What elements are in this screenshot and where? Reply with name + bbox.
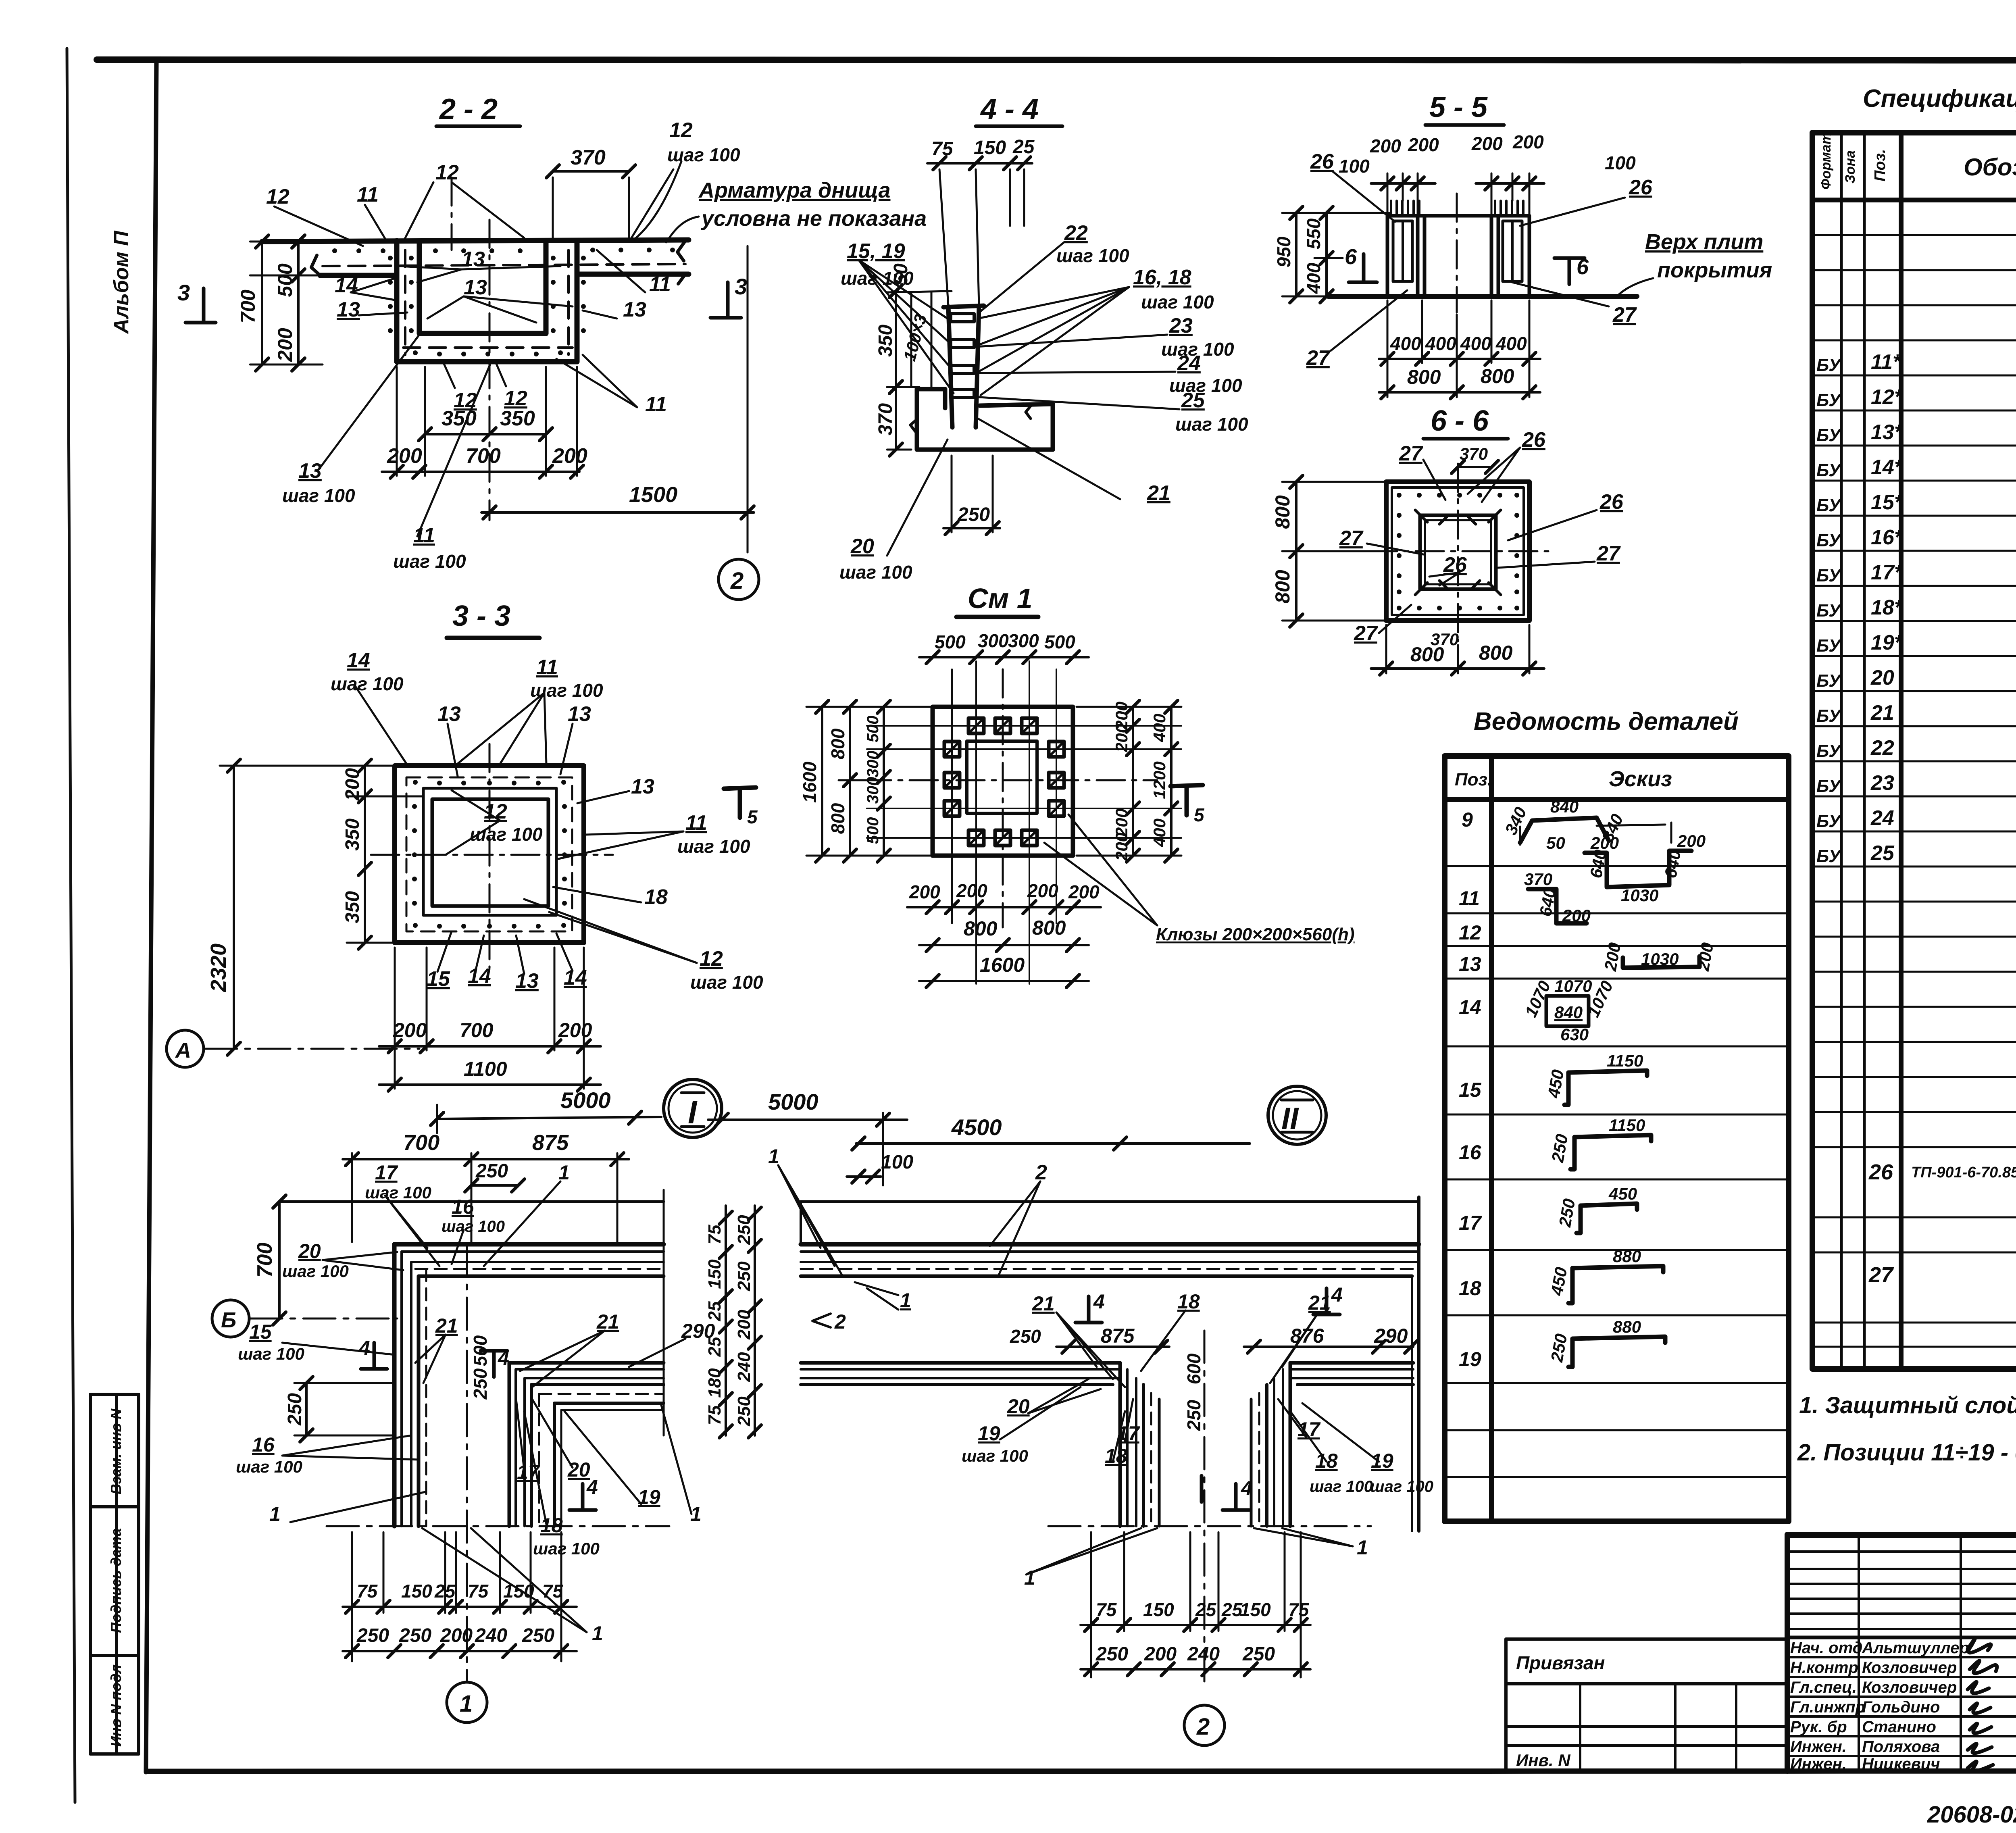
axis circle II bbox=[1268, 1086, 1326, 1144]
section 4-4 left dims bbox=[887, 291, 952, 450]
svg-text:16, 18: 16, 18 bbox=[1133, 266, 1191, 289]
svg-text:240: 240 bbox=[734, 1352, 754, 1382]
plan I left wall band bbox=[394, 1244, 426, 1526]
svg-text:240: 240 bbox=[1187, 1643, 1220, 1665]
section 2-2 rebar dots bbox=[388, 256, 586, 356]
parts list sketch dimension labels bbox=[1501, 797, 1717, 1364]
notes under table bbox=[1797, 1392, 2016, 1466]
svg-text:Альтшуллер: Альтшуллер bbox=[1862, 1639, 1969, 1657]
svg-text:200: 200 bbox=[909, 881, 940, 902]
section 2-2 left dimensions bbox=[250, 242, 323, 365]
svg-text:700: 700 bbox=[253, 1243, 277, 1278]
svg-text:800: 800 bbox=[827, 728, 848, 759]
svg-text:Формат: Формат bbox=[1818, 132, 1834, 190]
plan II dim 100 bbox=[847, 1175, 881, 1178]
svg-text:5: 5 bbox=[747, 806, 758, 827]
svg-text:шаг 100: шаг 100 bbox=[667, 144, 740, 165]
section 3-3 rebar dashed ring bbox=[406, 777, 572, 931]
svg-text:250: 250 bbox=[1547, 1332, 1571, 1364]
svg-text:600: 600 bbox=[1183, 1353, 1204, 1384]
sketch pos 17 L bbox=[1577, 1206, 1581, 1233]
svg-text:800: 800 bbox=[1407, 366, 1441, 388]
section 3-3 left dims bbox=[347, 766, 423, 943]
plan Sm1 bottom dims bbox=[907, 907, 1101, 981]
svg-text:25: 25 bbox=[1870, 842, 1895, 865]
svg-text:150: 150 bbox=[401, 1581, 432, 1602]
svg-text:21: 21 bbox=[1032, 1292, 1055, 1315]
svg-text:250: 250 bbox=[356, 1625, 389, 1646]
svg-text:11: 11 bbox=[1459, 887, 1480, 910]
svg-text:Альбом П: Альбом П bbox=[110, 230, 133, 335]
section 2-2 bottom dims 200 700 200 bbox=[382, 367, 579, 476]
svg-text:БУ: БУ bbox=[1816, 741, 1842, 761]
svg-text:100: 100 bbox=[1339, 156, 1370, 177]
svg-text:1100: 1100 bbox=[464, 1058, 507, 1080]
T5 mark right of Sm1 bbox=[1170, 785, 1203, 815]
svg-text:25: 25 bbox=[1012, 136, 1035, 158]
svg-text:Козловичер: Козловичер bbox=[1862, 1659, 1957, 1677]
svg-text:400: 400 bbox=[1460, 333, 1491, 354]
section 2-2 labels with leaders bbox=[274, 161, 699, 536]
svg-text:13: 13 bbox=[437, 702, 461, 726]
svg-text:400: 400 bbox=[1303, 262, 1324, 294]
svg-text:20608-02: 20608-02 bbox=[1927, 1802, 2016, 1828]
plan I dim 250 bbox=[471, 1184, 518, 1187]
svg-text:13: 13 bbox=[568, 702, 591, 726]
svg-text:4500: 4500 bbox=[951, 1114, 1002, 1140]
svg-text:26: 26 bbox=[1443, 553, 1467, 577]
svg-text:I: I bbox=[688, 1094, 698, 1130]
svg-text:150: 150 bbox=[705, 1259, 725, 1289]
svg-text:шаг 100: шаг 100 bbox=[365, 1183, 431, 1202]
svg-text:200: 200 bbox=[956, 880, 987, 901]
section 5-5 top dims bbox=[1371, 173, 1544, 216]
svg-text:шаг 100: шаг 100 bbox=[533, 1539, 600, 1558]
section 5-5 mark 6 left bbox=[1349, 254, 1377, 282]
svg-text:Инв. N: Инв. N bbox=[1516, 1751, 1571, 1770]
svg-text:370: 370 bbox=[875, 403, 896, 435]
svg-text:Поз.: Поз. bbox=[1872, 149, 1889, 182]
svg-text:БУ: БУ bbox=[1816, 425, 1842, 445]
svg-text:700: 700 bbox=[403, 1131, 439, 1155]
svg-text:Н.контр: Н.контр bbox=[1790, 1659, 1858, 1677]
svg-text:200: 200 bbox=[1370, 135, 1401, 156]
svg-text:21: 21 bbox=[1147, 481, 1170, 505]
sketch pos 18 L bbox=[1568, 1268, 1572, 1303]
plan I inner corner band bbox=[509, 1363, 664, 1526]
svg-text:200: 200 bbox=[440, 1625, 473, 1646]
svg-text:1200: 1200 bbox=[1150, 761, 1169, 799]
svg-text:1: 1 bbox=[460, 1691, 473, 1717]
svg-text:25: 25 bbox=[1195, 1599, 1217, 1620]
svg-text:1. Защитный слой в стакане: 1. Защитный слой в стакане - 25мм. bbox=[1799, 1392, 2016, 1418]
svg-text:200: 200 bbox=[1144, 1643, 1177, 1665]
svg-text:Зона: Зона bbox=[1843, 150, 1858, 183]
svg-text:250: 250 bbox=[475, 1160, 508, 1182]
svg-text:4: 4 bbox=[1241, 1477, 1252, 1500]
left stamp strip bbox=[90, 1394, 139, 1754]
svg-text:25: 25 bbox=[1181, 389, 1205, 412]
svg-text:25: 25 bbox=[434, 1581, 456, 1602]
plan II bottom dims row2 bbox=[1081, 1668, 1310, 1671]
title block left signature sub-table bbox=[1787, 1535, 2016, 1771]
plan II dim 4500 bbox=[856, 1142, 1250, 1145]
section 2-2 bottom dims 350 350 bbox=[425, 367, 546, 476]
section 6-6 centerlines bbox=[1369, 464, 1548, 641]
svg-text:27: 27 bbox=[1354, 622, 1378, 645]
section 2-2 rebar dashed lines bbox=[323, 250, 685, 355]
svg-text:200: 200 bbox=[342, 768, 363, 801]
section mark 3 right bbox=[710, 282, 741, 318]
svg-text:300: 300 bbox=[978, 630, 1009, 651]
svg-text:Поз.: Поз. bbox=[1455, 770, 1492, 789]
svg-text:13: 13 bbox=[1459, 953, 1481, 975]
svg-text:БУ: БУ bbox=[1816, 601, 1842, 621]
svg-text:12*: 12* bbox=[1871, 385, 1904, 409]
axis circle B bbox=[212, 1300, 397, 1337]
plan Sm1 top dims bbox=[919, 656, 1089, 658]
svg-text:шаг 100: шаг 100 bbox=[1175, 414, 1248, 435]
svg-text:75: 75 bbox=[1096, 1599, 1117, 1620]
plan I band right end extension line bbox=[663, 1190, 665, 1435]
svg-text:1030: 1030 bbox=[1641, 950, 1679, 969]
svg-text:250: 250 bbox=[1548, 1133, 1572, 1164]
svg-text:1: 1 bbox=[269, 1503, 281, 1525]
svg-text:2: 2 bbox=[834, 1310, 846, 1333]
svg-text:300: 300 bbox=[864, 777, 882, 804]
plan II label 1 top bbox=[778, 1165, 843, 1276]
svg-text:250: 250 bbox=[957, 504, 990, 525]
svg-text:Обозначение: Обозначение bbox=[1964, 154, 2016, 181]
section 2-2 centerline bbox=[452, 177, 489, 520]
sketch pos 15 L bbox=[1564, 1073, 1568, 1105]
svg-text:15: 15 bbox=[249, 1321, 272, 1343]
sheet outer edge line bbox=[67, 48, 75, 1802]
svg-text:200: 200 bbox=[558, 1019, 592, 1041]
plan II wedge 2 mark bbox=[812, 1314, 831, 1327]
section 2-2 dim 1500 bbox=[481, 246, 754, 552]
section 3-3 centerlines bbox=[371, 744, 613, 968]
svg-text:4: 4 bbox=[358, 1337, 370, 1359]
svg-text:БУ: БУ bbox=[1816, 496, 1842, 515]
svg-text:26: 26 bbox=[1599, 490, 1624, 514]
plan II pit corner wall B bbox=[1251, 1363, 1290, 1526]
sketch pos 13 bracket bbox=[1623, 956, 1699, 968]
svg-text:25: 25 bbox=[705, 1301, 725, 1321]
svg-text:2: 2 bbox=[1196, 1714, 1210, 1740]
svg-text:876: 876 bbox=[1290, 1325, 1325, 1347]
svg-text:400: 400 bbox=[1390, 333, 1421, 354]
svg-text:13: 13 bbox=[462, 248, 485, 271]
section 4-4 right leaders bbox=[859, 242, 1179, 556]
svg-text:250: 250 bbox=[734, 1261, 754, 1291]
svg-text:26: 26 bbox=[1310, 150, 1334, 173]
svg-text:1070: 1070 bbox=[1554, 977, 1592, 996]
svg-text:3: 3 bbox=[735, 274, 747, 299]
svg-text:250: 250 bbox=[399, 1625, 431, 1646]
svg-text:Привязан: Привязан bbox=[1516, 1652, 1605, 1673]
svg-text:5: 5 bbox=[1194, 804, 1205, 825]
section 6-6 top dim 370 bbox=[1458, 466, 1492, 468]
svg-text:26: 26 bbox=[1522, 428, 1546, 452]
svg-text:19*: 19* bbox=[1871, 631, 1904, 654]
section 3-3 top labels bbox=[355, 685, 697, 974]
svg-text:250: 250 bbox=[734, 1215, 754, 1245]
svg-text:1: 1 bbox=[690, 1503, 702, 1525]
svg-text:150: 150 bbox=[503, 1581, 534, 1602]
sketch pos 9 hat shape bbox=[1520, 818, 1609, 843]
svg-text:12: 12 bbox=[1459, 921, 1481, 944]
axis circle I bbox=[664, 1079, 722, 1137]
section 6-6 left dims bbox=[1282, 482, 1387, 621]
sketch pos 14 rect bbox=[1546, 996, 1589, 1026]
svg-text:Спецификация: Спецификация bbox=[1863, 85, 2016, 112]
svg-text:Гл.спец.: Гл.спец. bbox=[1790, 1679, 1857, 1696]
svg-text:Инв N подл: Инв N подл bbox=[108, 1664, 124, 1747]
svg-text:20: 20 bbox=[298, 1240, 321, 1262]
svg-text:14: 14 bbox=[347, 649, 370, 672]
svg-text:11: 11 bbox=[685, 811, 707, 835]
svg-text:800: 800 bbox=[1479, 642, 1513, 664]
axis circle A bbox=[167, 1030, 419, 1067]
svg-text:Козловичер: Козловичер bbox=[1862, 1679, 1957, 1696]
svg-text:350: 350 bbox=[875, 325, 896, 357]
svg-text:12: 12 bbox=[266, 185, 289, 208]
svg-text:21: 21 bbox=[435, 1314, 458, 1337]
svg-text:200: 200 bbox=[1512, 131, 1544, 152]
title block outer bbox=[1787, 1535, 2016, 1771]
svg-text:6 - 6: 6 - 6 bbox=[1431, 405, 1489, 437]
svg-text:75: 75 bbox=[931, 138, 954, 160]
svg-text:800: 800 bbox=[1271, 495, 1294, 529]
svg-text:20: 20 bbox=[850, 535, 874, 558]
plan I left dim 250 bbox=[294, 1383, 393, 1435]
axis circle 2 of section 2-2 bbox=[719, 559, 759, 600]
svg-text:16: 16 bbox=[1459, 1141, 1482, 1164]
svg-text:200: 200 bbox=[274, 328, 296, 362]
section 3-3 dim 5000 to axis I bbox=[437, 1105, 661, 1133]
svg-text:640: 640 bbox=[1661, 848, 1684, 879]
svg-text:БУ: БУ bbox=[1816, 390, 1842, 410]
svg-text:4: 4 bbox=[1093, 1290, 1105, 1313]
plan II top wall band bbox=[801, 1197, 1419, 1531]
svg-text:шаг 100: шаг 100 bbox=[282, 485, 355, 506]
plan II label 1 under band bbox=[855, 1282, 898, 1310]
svg-text:А: А bbox=[175, 1038, 191, 1062]
section 4-4 base block bbox=[910, 389, 1053, 450]
svg-text:19: 19 bbox=[978, 1422, 1000, 1445]
svg-text:шаг 100: шаг 100 bbox=[677, 836, 750, 857]
svg-text:17: 17 bbox=[1459, 1212, 1482, 1234]
sketch pos 9 U shape bbox=[1585, 851, 1691, 887]
section 3-3 rebar dots bbox=[412, 780, 567, 929]
svg-text:200: 200 bbox=[393, 1019, 427, 1041]
svg-text:12: 12 bbox=[484, 800, 507, 823]
section 3-3 bottom dims bbox=[379, 948, 601, 1089]
svg-text:500: 500 bbox=[1044, 631, 1075, 652]
svg-text:200: 200 bbox=[1027, 880, 1058, 901]
sketch pos 19 L bbox=[1568, 1339, 1572, 1367]
svg-text:500: 500 bbox=[935, 631, 966, 652]
svg-text:условна не показана: условна не показана bbox=[700, 206, 927, 231]
svg-text:15: 15 bbox=[427, 967, 450, 991]
svg-text:12: 12 bbox=[435, 161, 459, 184]
plan I top dims 700 875 bbox=[343, 1153, 629, 1242]
svg-text:700: 700 bbox=[466, 444, 501, 468]
section 6-6 title bbox=[1423, 405, 1508, 439]
svg-text:шаг 100: шаг 100 bbox=[393, 551, 466, 572]
svg-text:18*: 18* bbox=[1871, 596, 1904, 619]
svg-text:Подпись дата: Подпись дата bbox=[108, 1528, 124, 1633]
svg-text:18: 18 bbox=[1105, 1445, 1127, 1467]
row rules bbox=[1812, 234, 2016, 236]
svg-text:200: 200 bbox=[734, 1310, 754, 1340]
svg-text:18: 18 bbox=[1177, 1290, 1200, 1313]
section 5-5 centerline bbox=[1456, 194, 1458, 312]
plan I top wall band bbox=[394, 1244, 664, 1276]
svg-text:800: 800 bbox=[964, 917, 998, 940]
plan I bottom V leader 1 bbox=[422, 1528, 587, 1632]
parts list (vedomost) title bbox=[1474, 708, 1739, 735]
svg-text:350: 350 bbox=[342, 891, 363, 923]
section 3-3 squares bbox=[395, 766, 584, 943]
svg-text:2. Позиции 11÷19 - см. ведомо: 2. Позиции 11÷19 - см. ведомость деталей… bbox=[1797, 1439, 2016, 1466]
svg-text:75: 75 bbox=[468, 1581, 489, 1602]
svg-text:БУ: БУ bbox=[1816, 355, 1842, 375]
section 5-5 bottom dims bbox=[1379, 300, 1540, 397]
section 5-5 left dims bbox=[1282, 213, 1391, 296]
plan Sm1 centerlines bbox=[863, 669, 1157, 927]
svg-text:500: 500 bbox=[864, 817, 882, 844]
svg-text:25: 25 bbox=[705, 1337, 725, 1357]
svg-text:370: 370 bbox=[1524, 870, 1552, 889]
svg-text:шаг 100: шаг 100 bbox=[841, 268, 914, 289]
svg-text:700: 700 bbox=[460, 1019, 494, 1041]
plan II mid labels 21 18 bbox=[1056, 1310, 1318, 1387]
svg-text:Б: Б bbox=[221, 1308, 236, 1332]
plan II bottom dims row1 bbox=[1081, 1532, 1310, 1677]
svg-text:200: 200 bbox=[1408, 134, 1439, 155]
svg-text:11: 11 bbox=[649, 273, 671, 296]
svg-text:12: 12 bbox=[504, 387, 527, 410]
svg-text:250: 250 bbox=[284, 1393, 306, 1426]
plan Sm1 left dims bbox=[806, 707, 935, 856]
svg-text:шаг 100: шаг 100 bbox=[1310, 1478, 1373, 1496]
svg-text:5000: 5000 bbox=[560, 1087, 611, 1113]
svg-text:1: 1 bbox=[768, 1145, 779, 1168]
svg-text:11*: 11* bbox=[1871, 350, 1902, 374]
svg-text:15*: 15* bbox=[1871, 491, 1904, 514]
svg-text:18: 18 bbox=[1459, 1277, 1481, 1300]
album label (rotated) bbox=[110, 230, 133, 335]
svg-text:100: 100 bbox=[881, 1152, 913, 1173]
svg-text:400: 400 bbox=[1425, 333, 1456, 354]
svg-text:5 - 5: 5 - 5 bbox=[1429, 91, 1488, 123]
svg-text:Инжен.: Инжен. bbox=[1790, 1755, 1847, 1773]
plan II labels under band left bbox=[1000, 1379, 1133, 1462]
svg-text:9: 9 bbox=[1462, 808, 1473, 831]
svg-text:шаг 100: шаг 100 bbox=[282, 1262, 349, 1281]
plan II pit corner wall A bbox=[1120, 1363, 1159, 1526]
note armatura dnishcha bbox=[698, 178, 927, 231]
svg-text:16: 16 bbox=[452, 1196, 475, 1218]
svg-text:300: 300 bbox=[1008, 630, 1039, 651]
svg-text:19: 19 bbox=[1371, 1450, 1393, 1472]
svg-text:6: 6 bbox=[1345, 245, 1357, 269]
section 5-5 title bbox=[1425, 91, 1504, 125]
plan II section marks 4 bbox=[1075, 1288, 1340, 1510]
svg-text:БУ: БУ bbox=[1816, 846, 1842, 866]
svg-text:75: 75 bbox=[542, 1581, 564, 1602]
svg-text:шаг 100: шаг 100 bbox=[470, 824, 543, 845]
svg-text:Поляхова: Поляхова bbox=[1862, 1738, 1940, 1756]
svg-text:630: 630 bbox=[1560, 1025, 1589, 1044]
svg-text:450: 450 bbox=[1547, 1266, 1571, 1297]
svg-text:4: 4 bbox=[1331, 1283, 1343, 1306]
svg-text:13: 13 bbox=[464, 276, 487, 299]
plan I bottom dims row2 bbox=[343, 1650, 577, 1652]
svg-text:1070: 1070 bbox=[1521, 978, 1554, 1020]
plan I section marks 4 bbox=[361, 1343, 596, 1510]
svg-text:1: 1 bbox=[1024, 1566, 1035, 1589]
parts list table grid bbox=[1445, 756, 1789, 1521]
svg-text:50: 50 bbox=[1546, 833, 1565, 852]
svg-text:450: 450 bbox=[1544, 1068, 1568, 1100]
svg-text:875: 875 bbox=[532, 1131, 569, 1155]
svg-text:26: 26 bbox=[1868, 1160, 1893, 1184]
svg-text:19: 19 bbox=[638, 1486, 660, 1508]
svg-text:13: 13 bbox=[631, 775, 654, 798]
svg-text:БУ: БУ bbox=[1816, 671, 1842, 691]
svg-text:840: 840 bbox=[1554, 1003, 1583, 1022]
plan II top outer line bbox=[801, 1200, 1419, 1203]
svg-text:17: 17 bbox=[517, 1461, 540, 1483]
svg-text:20: 20 bbox=[567, 1458, 590, 1481]
svg-text:75: 75 bbox=[1288, 1599, 1310, 1620]
svg-text:75: 75 bbox=[705, 1405, 725, 1425]
svg-text:800: 800 bbox=[1032, 916, 1066, 939]
svg-text:13: 13 bbox=[298, 459, 322, 483]
svg-text:180: 180 bbox=[705, 1368, 725, 1398]
svg-text:370: 370 bbox=[571, 146, 606, 169]
svg-text:17: 17 bbox=[1117, 1422, 1140, 1445]
svg-text:1: 1 bbox=[1357, 1536, 1368, 1559]
svg-text:27: 27 bbox=[1306, 346, 1331, 370]
svg-text:24: 24 bbox=[1870, 806, 1894, 830]
svg-text:1150: 1150 bbox=[1607, 1051, 1643, 1070]
svg-text:Станино: Станино bbox=[1862, 1718, 1936, 1736]
section 5-5 labels bbox=[1331, 171, 1653, 351]
plan I top outer wall line bbox=[279, 1200, 664, 1203]
svg-text:1600: 1600 bbox=[799, 761, 820, 803]
svg-text:II: II bbox=[1281, 1102, 1299, 1136]
section 6-6 bottom dims bbox=[1371, 625, 1544, 673]
svg-text:800: 800 bbox=[827, 803, 848, 834]
plan Sm1 title bbox=[956, 583, 1038, 617]
section 4-4 column ladder bbox=[943, 306, 984, 427]
svg-text:3: 3 bbox=[177, 280, 190, 305]
plan Sm1 right dims bbox=[1077, 707, 1181, 856]
svg-text:13: 13 bbox=[515, 969, 539, 993]
svg-text:500: 500 bbox=[274, 263, 296, 297]
plan Sm1 grid extension lines bbox=[867, 661, 1181, 984]
section 6-6 square box bbox=[1386, 482, 1529, 621]
svg-text:1500: 1500 bbox=[629, 483, 677, 507]
plan I labels top bbox=[385, 1181, 560, 1266]
svg-text:800: 800 bbox=[1481, 365, 1514, 387]
svg-text:Рук. бр: Рук. бр bbox=[1790, 1718, 1847, 1736]
specification materials part bbox=[1868, 958, 2016, 1369]
